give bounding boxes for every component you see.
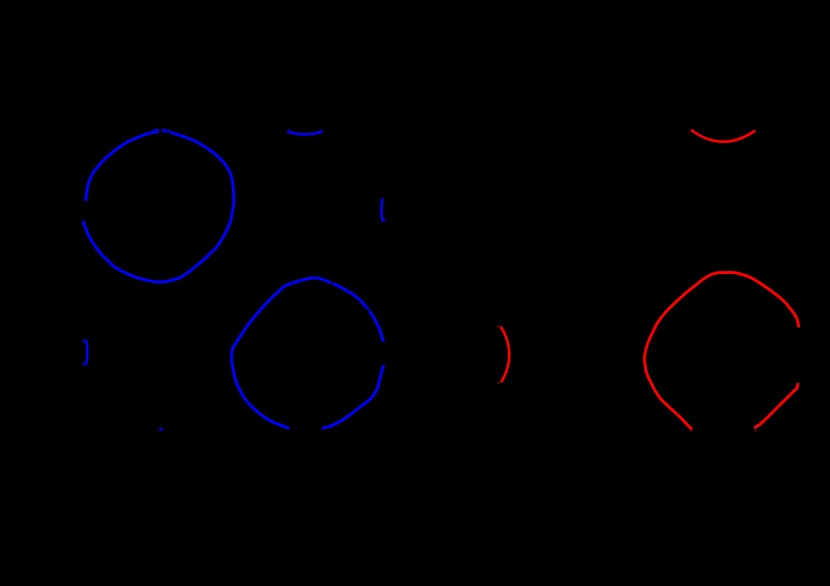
nick in loop B top right	[331, 281, 333, 284]
small red clipped arc R1 (top-right smile)	[691, 130, 755, 142]
tiny blue double dash S4 lower	[159, 430, 163, 431]
R2 clip dot top	[498, 326, 499, 327]
small blue clipped arc S2 (left-bulging, right of loop A)	[381, 198, 383, 222]
small blue clipped arc S1 below invisible label (top-middle)	[287, 131, 323, 134]
label gap on bottom of loop C	[692, 421, 754, 434]
nick2 in loop B northeast	[367, 309, 369, 312]
S1 end dot right	[320, 129, 321, 130]
small blue clipped arc S3 (left edge, right-bulging)	[86, 340, 88, 366]
label gap column at top of loop A	[159, 125, 162, 136]
thin blue dash above loop A top, left piece	[154, 129, 159, 130]
blue contour loop A (top-left)	[83, 132, 234, 282]
S3 clip dot bottom	[83, 363, 84, 366]
loop A gap-edge dot right	[86, 199, 87, 200]
S1 end dot left	[288, 129, 289, 130]
loop A gap-edge dot left	[83, 199, 84, 200]
S3 clip dot top	[83, 339, 84, 342]
S2 foot	[383, 220, 385, 222]
nick in loop C top-left	[692, 291, 695, 294]
R1 end dot	[692, 129, 693, 130]
small red clipped arc R2 (right-bulging, left of loop C)	[501, 326, 510, 382]
blue contour loop B (center-bottom)	[232, 278, 386, 431]
loop C bottom gap-edge dot right	[755, 430, 757, 431]
R2 clip dot bottom	[498, 382, 499, 383]
label gap on bottom of loop B	[289, 422, 322, 434]
thinning of loop A top line right of gap	[162, 132, 170, 136]
thin blue dash above loop A top, middle piece	[162, 129, 166, 130]
label gap on right of loop C	[791, 327, 805, 383]
label gap on right of loop B	[379, 342, 391, 365]
nick2 in loop C top-left	[682, 299, 685, 302]
red contour loop C (right)	[645, 272, 801, 430]
label gap on left of loop A	[78, 201, 88, 221]
loop C bottom gap-edge dot left	[690, 430, 692, 431]
thin blue dash above loop A top, right piece	[168, 129, 170, 130]
tiny blue double dash S4 upper	[159, 428, 164, 430]
